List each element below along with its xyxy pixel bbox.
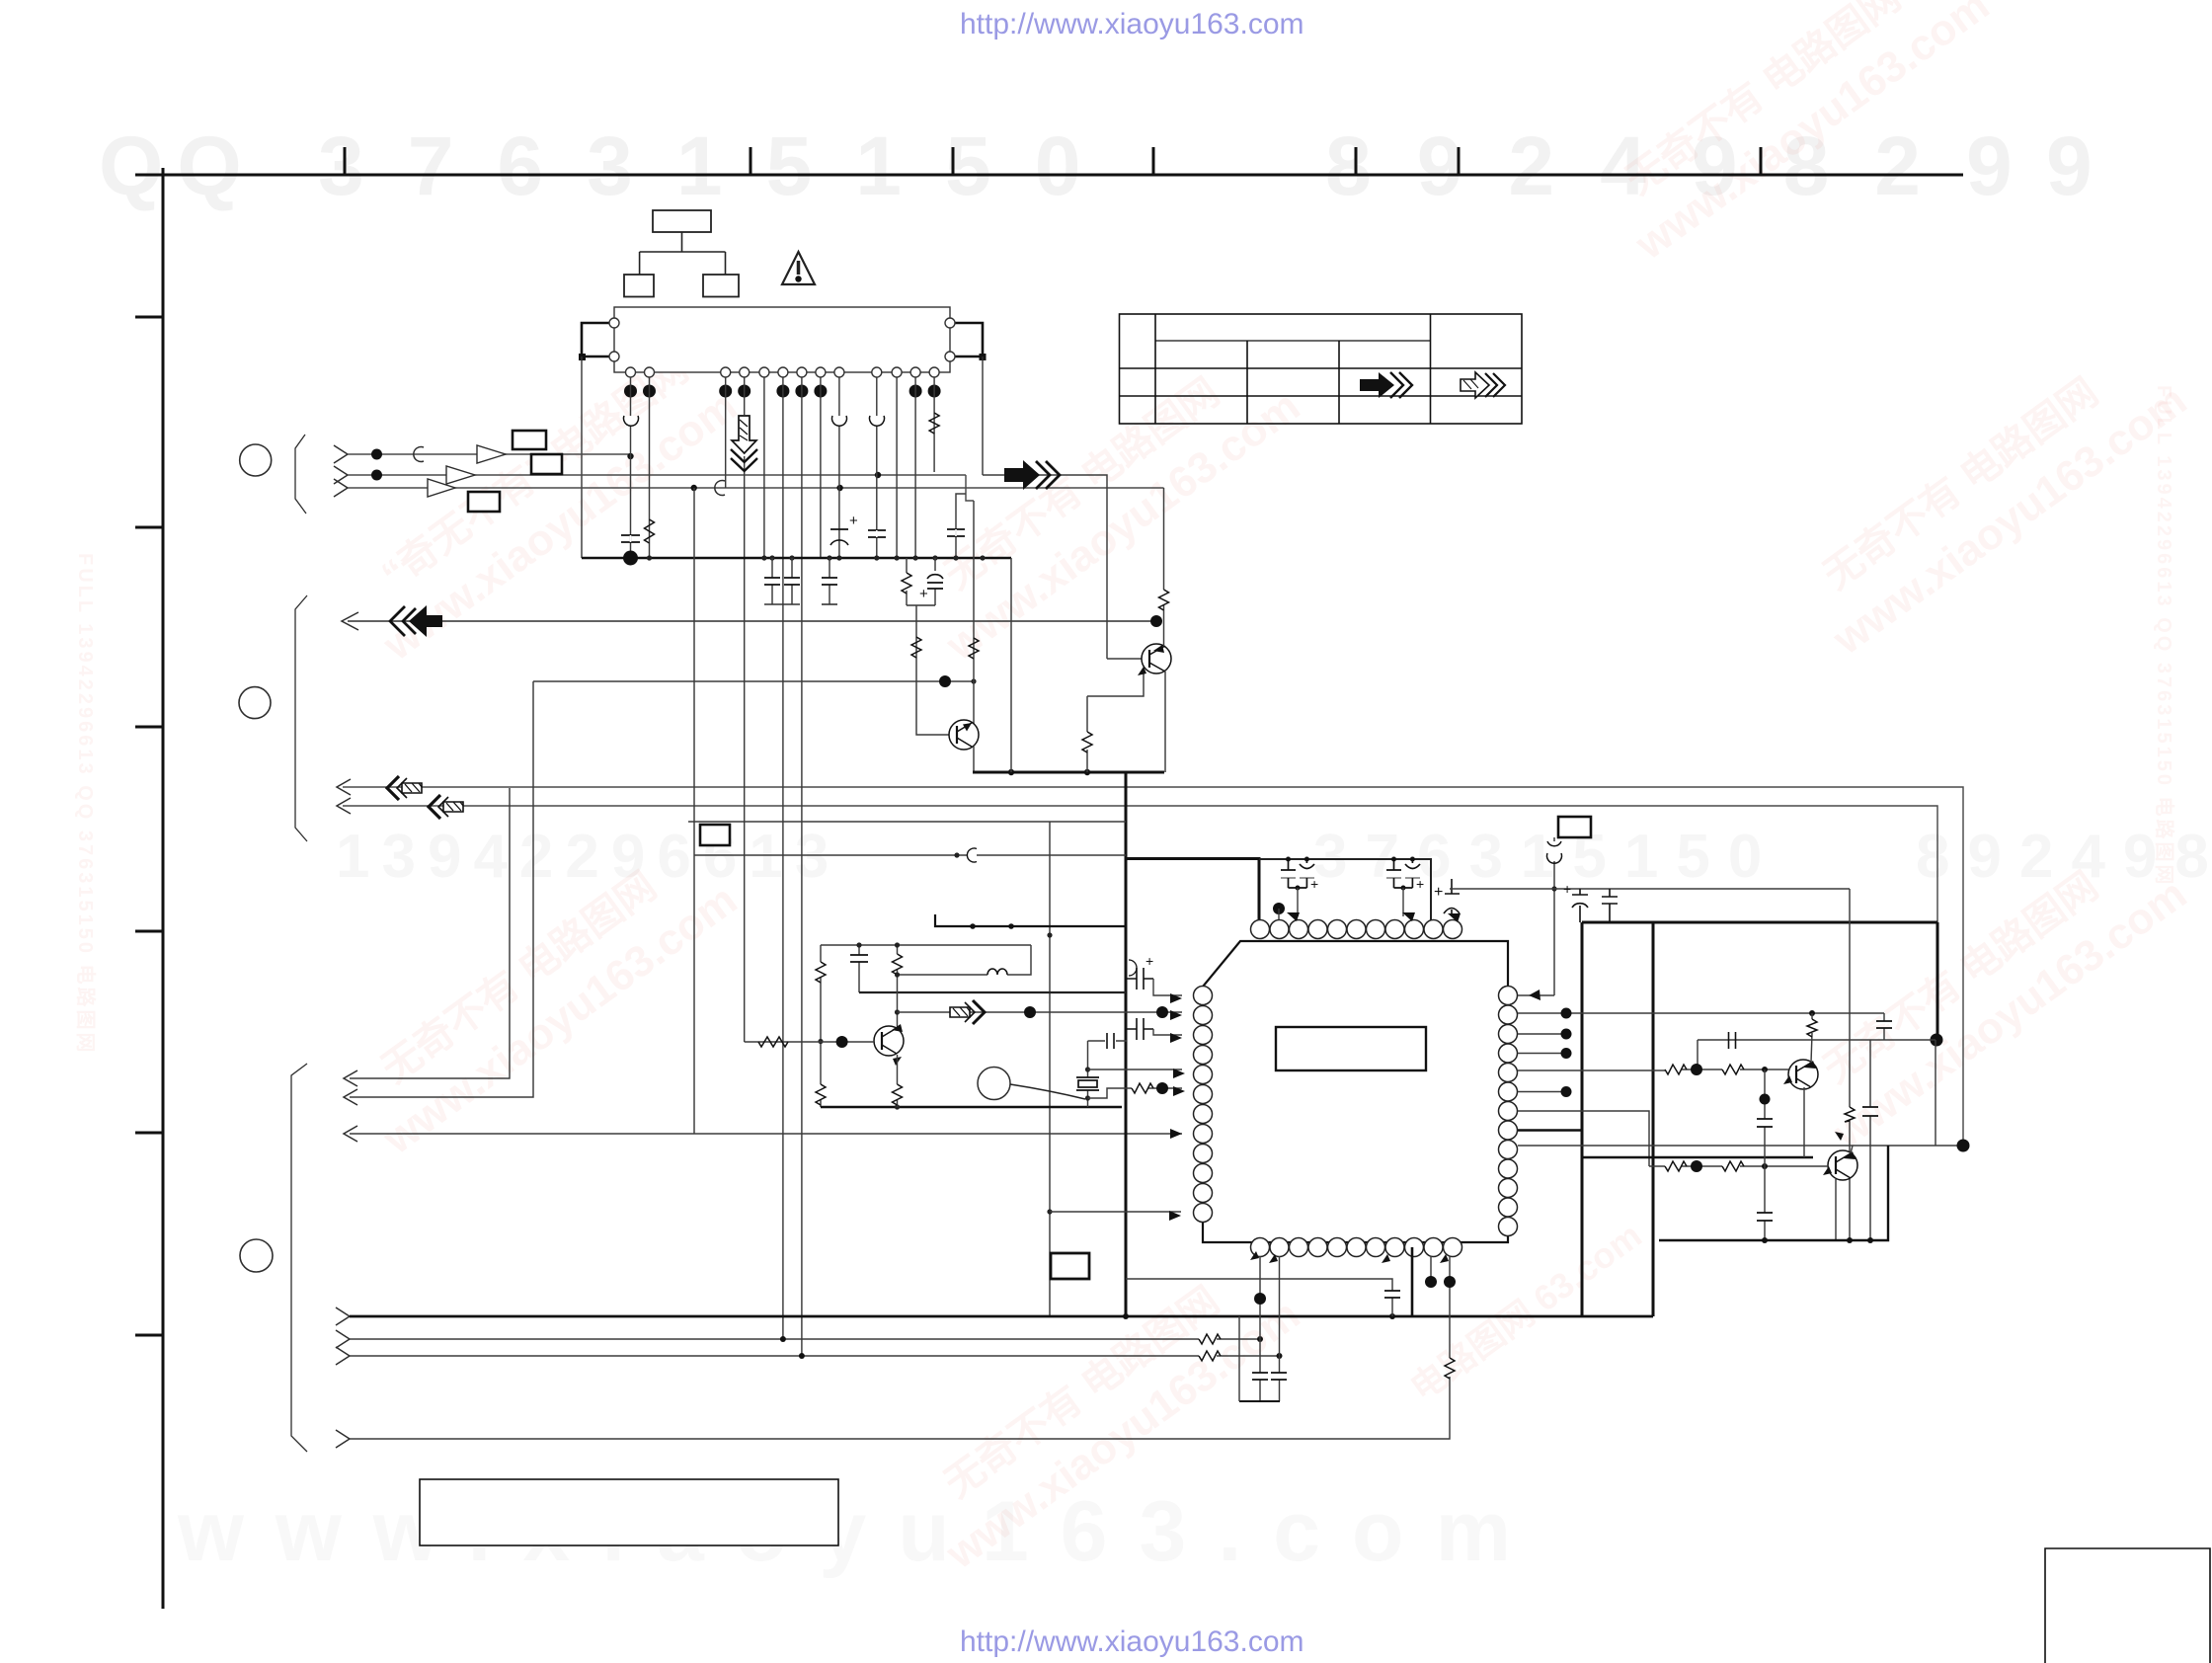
transistor Q4 bbox=[1138, 644, 1171, 675]
top frame line bbox=[135, 174, 1963, 177]
line y1295 bbox=[1126, 1279, 1392, 1316]
svg-text:www.xiaoyu163.com: www.xiaoyu163.com bbox=[177, 1484, 1542, 1579]
thick rail y934 bbox=[1582, 921, 1937, 924]
emitter chain x986 bbox=[973, 501, 975, 724]
tick left 3 bbox=[135, 726, 163, 729]
return arrow y1111 bbox=[344, 1089, 357, 1105]
Q1 base rail y1083 bbox=[1518, 1069, 1788, 1070]
wire line1 bbox=[348, 453, 631, 455]
vertical x1575 bbox=[1553, 837, 1555, 995]
out arrow y1452 bbox=[336, 1430, 350, 1448]
osc circle bbox=[978, 1068, 1010, 1100]
black right arrow symbol bbox=[1004, 460, 1040, 490]
pin wire x908 bbox=[896, 377, 898, 558]
return arrow y1092 bbox=[344, 1070, 357, 1086]
electrolytic cap on x849 bbox=[830, 528, 848, 530]
solid left arrow symbol bbox=[390, 606, 416, 636]
part rect R-C bbox=[468, 492, 500, 512]
circle marker C bbox=[240, 1239, 273, 1272]
vertical x703 bbox=[693, 488, 695, 1134]
dot y866 bbox=[954, 852, 959, 857]
table col line 2 bbox=[1246, 341, 1248, 424]
rail y987 with bead bbox=[898, 945, 1032, 975]
pin arrows below bottom pins bbox=[1250, 1251, 1259, 1260]
wire y1148 to IC pin bbox=[350, 1133, 1182, 1135]
caps chain x1787 bbox=[1764, 1069, 1766, 1240]
table black arrow symbol bbox=[1360, 372, 1394, 398]
part rect top right bbox=[1558, 817, 1591, 837]
svg-text:FULL 13942296613 QQ 376315150: FULL 13942296613 QQ 376315150 电路图网 bbox=[74, 553, 98, 1056]
series cap y1053 bbox=[1729, 1032, 1736, 1049]
base resistor bbox=[758, 1037, 788, 1047]
transistor Q5 bbox=[874, 1024, 904, 1066]
tick top 4 bbox=[1152, 147, 1155, 175]
IC right pins bbox=[1499, 987, 1518, 1236]
resistor on x946 bbox=[929, 413, 939, 434]
table col line 1 bbox=[1154, 314, 1156, 424]
resistor x908 bbox=[897, 945, 899, 1027]
pin3 arrow bbox=[1287, 912, 1300, 921]
Q4 base bbox=[1107, 658, 1142, 660]
hatched right arrow line y1025 bbox=[898, 1011, 1183, 1013]
bracket 3 bbox=[291, 1064, 307, 1452]
tick top 6 bbox=[1458, 147, 1461, 175]
resistor x1468 bbox=[1445, 1358, 1455, 1379]
tick top 3 bbox=[952, 147, 955, 175]
return arrowhead y629 bbox=[342, 612, 358, 630]
big junction dot bus bbox=[623, 551, 638, 566]
line y1452 from IC bbox=[350, 1377, 1450, 1439]
return arrow y1148 bbox=[344, 1126, 357, 1142]
stub pin3 bbox=[1153, 1029, 1182, 1035]
resistor on x657 bbox=[645, 519, 655, 543]
table row line 1 bbox=[1120, 367, 1523, 369]
vertical from dot x1960 bbox=[1935, 1040, 1936, 1146]
inductor arc line3 bbox=[715, 481, 725, 496]
line y1160 bbox=[1518, 1145, 1963, 1147]
end dot line1 bbox=[627, 453, 633, 459]
line y1053 bbox=[1698, 1039, 1935, 1041]
osc top rail bbox=[821, 944, 1031, 946]
osc left leg with resistors bbox=[820, 945, 822, 1107]
resistor x928 bbox=[911, 637, 921, 658]
buffer triangle line1 bbox=[477, 445, 506, 463]
tick left 1 bbox=[135, 316, 163, 319]
pin circle left top bbox=[609, 318, 619, 328]
below-bus cap 3 bbox=[829, 558, 830, 604]
circle marker A bbox=[240, 444, 272, 476]
small cap x1908 bbox=[1883, 1013, 1885, 1040]
svg-text:+: + bbox=[1416, 876, 1424, 892]
resistor b bbox=[1722, 1065, 1744, 1074]
dot x1063 b bbox=[1047, 1209, 1052, 1214]
resistor branch x1101 bbox=[1086, 696, 1088, 772]
bus dots bbox=[1123, 1313, 1129, 1319]
junction dot line2 bbox=[371, 470, 382, 481]
resistor osc left bottom bbox=[816, 1084, 826, 1105]
big dot base a bbox=[1691, 1064, 1702, 1075]
svg-text:13942296613: 13942296613 bbox=[336, 823, 840, 891]
left dashed caps bbox=[1126, 960, 1153, 1040]
svg-text:+: + bbox=[1310, 876, 1318, 892]
pin circle right top bbox=[945, 318, 955, 328]
rail dots bbox=[856, 942, 861, 947]
thick vertical x1602 bbox=[1581, 922, 1584, 1316]
out arrow y1373 bbox=[336, 1347, 350, 1365]
resistor a bbox=[1665, 1065, 1687, 1074]
Q1 emitter down bbox=[1803, 1087, 1805, 1157]
stub R8 thick bbox=[1518, 1129, 1582, 1131]
resistor line to pin6 bbox=[1088, 1088, 1183, 1098]
pin2 junction dot bbox=[1273, 903, 1285, 914]
big dot x1962 bbox=[1931, 1034, 1943, 1047]
thin line y866 bbox=[694, 854, 1126, 856]
wire pin B2 down bbox=[1279, 1256, 1281, 1401]
svg-text:376315150: 376315150 bbox=[318, 119, 1124, 212]
link y705 to Q4 bbox=[1087, 670, 1144, 696]
transistor Q2 bbox=[1823, 1150, 1857, 1180]
warning triangle bbox=[782, 252, 815, 284]
resistor y1373 bbox=[1199, 1351, 1221, 1361]
buffer triangle line2 bbox=[446, 466, 475, 484]
wires B10 B11 bbox=[1431, 1256, 1450, 1358]
stub R6 bbox=[1518, 1091, 1566, 1093]
svg-text:QQ: QQ bbox=[99, 119, 256, 212]
hatched left arrow y816 bbox=[429, 795, 463, 819]
crystal X1 bbox=[1087, 1041, 1089, 1107]
pin wire x657 bbox=[649, 377, 651, 558]
svg-text:+: + bbox=[1434, 884, 1443, 901]
stub R3 bbox=[1518, 1033, 1566, 1035]
top cap cluster 2 bbox=[1386, 859, 1420, 888]
IC body U1 bbox=[1203, 941, 1508, 1242]
dot bus782 b bbox=[1084, 769, 1090, 775]
pin9 arrow bbox=[1402, 912, 1415, 921]
input arrow 2 bbox=[334, 466, 348, 484]
big dot y690 bbox=[939, 675, 951, 687]
line y832 bbox=[688, 821, 1126, 823]
buffer triangle line3 bbox=[428, 479, 455, 497]
thick bus y782 bbox=[973, 771, 1164, 774]
stub R4 bbox=[1518, 1053, 1566, 1055]
pin wire x792 long bbox=[782, 377, 784, 1338]
ferrite bead bbox=[987, 969, 1007, 975]
pin wire x849 bbox=[838, 377, 840, 558]
bottom pin row circles bbox=[626, 367, 940, 377]
tick top 1 bbox=[344, 147, 347, 175]
hatched right arrow symbol bbox=[950, 1000, 985, 1024]
IC top pins bbox=[1251, 920, 1462, 939]
black right arrow line bbox=[983, 475, 1107, 659]
bus small dots bbox=[647, 555, 986, 560]
top cap cluster 1 bbox=[1281, 859, 1314, 888]
svg-text:FULL 13942296613 QQ 376315150: FULL 13942296613 QQ 376315150 电路图网 bbox=[2153, 385, 2176, 888]
pin wire x734 bbox=[725, 377, 727, 488]
input arrow 3 bbox=[334, 479, 348, 497]
Q5 emitter down bbox=[897, 1055, 899, 1107]
junction dot line3b bbox=[836, 485, 842, 491]
below-bus cap 2 bbox=[791, 558, 793, 604]
pin junction dots below connector bbox=[624, 385, 941, 398]
inner box right edge thick bbox=[1936, 922, 1939, 1040]
pin wire x946 bbox=[933, 377, 935, 472]
junction dot line3a bbox=[691, 485, 697, 491]
right tab junction bbox=[980, 354, 987, 360]
below-bus cap bracket a bbox=[764, 603, 800, 605]
svg-text:http://www.xiaoyu163.com: http://www.xiaoyu163.com bbox=[960, 8, 1304, 40]
below-bus cap 1 bbox=[771, 558, 773, 604]
svg-text:+: + bbox=[849, 513, 858, 529]
thick stub x1430 bbox=[1411, 1247, 1414, 1316]
IC bottom pins bbox=[1251, 1238, 1462, 1257]
table col line 3 bbox=[1338, 341, 1340, 424]
inductor arc line1 bbox=[414, 447, 424, 462]
capacitor C on x638 bbox=[621, 535, 640, 542]
hierarchy child box left bbox=[624, 275, 654, 297]
line y900 bbox=[1450, 888, 1850, 890]
part rect R-B bbox=[531, 454, 562, 474]
wire pin B1 down bbox=[1259, 1256, 1261, 1401]
resistor x986 bbox=[969, 638, 979, 659]
tick top 7 bbox=[1760, 147, 1763, 175]
line to pin12 bbox=[1050, 1211, 1181, 1213]
electrolytic below bus x947 bbox=[934, 558, 936, 605]
tick top 5 bbox=[1355, 147, 1358, 175]
left tab junction bbox=[579, 354, 586, 360]
tick top 2 bbox=[750, 147, 752, 175]
part rect mid bbox=[700, 825, 730, 845]
svg-text:+: + bbox=[919, 586, 928, 602]
table row line 2 bbox=[1120, 395, 1523, 397]
tick left 5 bbox=[135, 1132, 163, 1135]
junction dot y629 bbox=[1150, 615, 1162, 627]
part rect bottom bbox=[1051, 1253, 1089, 1279]
main bottom bus y1333 bbox=[350, 1315, 1653, 1318]
resistor y1356 bbox=[1199, 1334, 1221, 1344]
pin wire x753 bbox=[744, 377, 746, 1042]
return arrowhead y797 bbox=[337, 779, 351, 795]
cap x870 bbox=[858, 945, 860, 992]
hatched down arrow bbox=[731, 416, 757, 471]
mid rail y1005 bbox=[859, 991, 1126, 993]
wire y1092 bbox=[350, 788, 510, 1078]
circle marker B bbox=[239, 687, 271, 719]
Q3 collector down bbox=[973, 747, 975, 772]
arc on y866 bbox=[967, 848, 977, 862]
svg-text:+: + bbox=[1145, 953, 1153, 969]
junction dot line2 right bbox=[875, 472, 881, 478]
line y690 bbox=[533, 680, 974, 682]
resistor below bus x918 bbox=[906, 558, 908, 605]
table outer bbox=[1120, 314, 1523, 424]
wire tab down to bus bbox=[581, 356, 583, 558]
thick rail y1172 bbox=[1582, 1156, 1813, 1158]
vertical x1024 bus565-bus782 bbox=[1010, 558, 1012, 772]
svg-text:9: 9 bbox=[2046, 119, 2093, 212]
big dot y1025 bbox=[1024, 1006, 1036, 1018]
inductor arcs x1575 bbox=[1547, 841, 1562, 863]
table col line 4 bbox=[1430, 314, 1432, 424]
small dot base b bbox=[1762, 1067, 1768, 1072]
main bus y565 bbox=[582, 557, 1011, 560]
IC left pins bbox=[1194, 987, 1213, 1223]
Q5 base line bbox=[745, 1041, 874, 1043]
cap on y1054 link bbox=[1088, 1040, 1128, 1042]
hierarchy child box right bbox=[703, 275, 739, 297]
dot bus782 a bbox=[1008, 769, 1014, 775]
part rect R-A bbox=[513, 431, 546, 449]
electrolytic to pin11 bbox=[1444, 879, 1460, 916]
inductor arc on x849 bbox=[832, 416, 847, 426]
bottom rail y1256 bbox=[1659, 1146, 1888, 1240]
resistor chain x1178 bbox=[1163, 488, 1165, 645]
line to pin4 bbox=[1088, 1069, 1183, 1070]
wire line2 bbox=[348, 474, 966, 476]
left tab bracket bbox=[582, 323, 609, 356]
cap branch x968 bbox=[956, 494, 966, 558]
hierarchy parent box bbox=[653, 210, 711, 232]
svg-text:http://www.xiaoyu163.com: http://www.xiaoyu163.com bbox=[960, 1625, 1304, 1658]
cap x1894 bbox=[1869, 1040, 1871, 1240]
bracket 1 bbox=[295, 435, 306, 514]
line y1356 bbox=[350, 1338, 1260, 1340]
pink rotated watermarks bbox=[342, 0, 2195, 1579]
Q2 base rail y1181 bbox=[1649, 1165, 1828, 1167]
line2 corner jog bbox=[966, 475, 974, 501]
resistor x1873 bbox=[1845, 1107, 1855, 1122]
pin R7 line to Q2 base bbox=[1518, 1111, 1649, 1166]
tick left 4 bbox=[135, 930, 163, 933]
tick left 6 bbox=[135, 1334, 163, 1337]
right tab bracket bbox=[955, 323, 983, 356]
hierarchy connectors bbox=[640, 232, 726, 275]
Q1 collector up bbox=[1811, 1033, 1812, 1063]
hatched left arrow y797 bbox=[387, 776, 422, 800]
line y1373 bbox=[350, 1355, 1280, 1357]
inductor arc on x887 bbox=[870, 416, 885, 426]
thick feed y870 bbox=[1126, 859, 1259, 920]
Q2 emitter down bbox=[1835, 1179, 1837, 1240]
wire down to Q3 base bbox=[916, 605, 949, 735]
return wire y816 (inner box top) bbox=[343, 806, 1937, 922]
line y1026 pin R2 bbox=[1518, 1012, 1884, 1014]
bracket rc bbox=[907, 604, 935, 606]
pin wire x773 bbox=[763, 377, 765, 558]
transistor Q3 bbox=[949, 720, 979, 750]
pin wire x830 bbox=[820, 377, 822, 558]
top loop rail bbox=[1259, 859, 1431, 920]
vertical x1873 bbox=[1849, 889, 1851, 1240]
left frame line bbox=[162, 168, 165, 1609]
out arrow y1356 bbox=[336, 1330, 350, 1348]
tick left 2 bbox=[135, 526, 163, 529]
table hatched arrow symbol bbox=[1461, 372, 1505, 398]
resistor x1835 bbox=[1811, 1013, 1813, 1019]
stub pin1 bbox=[1153, 979, 1182, 995]
inductor arc on x638 bbox=[624, 416, 639, 426]
pin circle right bottom bbox=[945, 352, 955, 361]
pin wire x887 bbox=[876, 377, 878, 558]
pin circle left bottom bbox=[609, 352, 619, 361]
out arrow y1333 bbox=[336, 1307, 350, 1325]
big dot y1025 b bbox=[1156, 1006, 1168, 1018]
Q2 collector up to y1160 bbox=[1851, 1146, 1853, 1153]
wire right tab down bbox=[982, 356, 984, 475]
junction dot line1 bbox=[371, 449, 382, 460]
svg-text:+: + bbox=[1563, 881, 1571, 897]
thick vertical x1140 bbox=[1125, 772, 1128, 1316]
capacitor on x887 bbox=[868, 530, 886, 537]
pin wire x811 long bbox=[801, 377, 803, 1356]
small dot y690 bbox=[971, 678, 976, 683]
return arrowhead y816 bbox=[337, 798, 351, 814]
corner to Q1 base rail bbox=[1697, 1040, 1698, 1069]
Q4 collector down to thick bus bbox=[1164, 672, 1166, 772]
wire line3 bbox=[348, 487, 1164, 489]
return wire y629 bbox=[348, 620, 1151, 622]
title box bbox=[420, 1479, 838, 1545]
dot x1063 a bbox=[1047, 932, 1052, 937]
pin R1 wire bbox=[1518, 994, 1554, 996]
below-bus cap bracket b bbox=[822, 603, 837, 605]
return wire y797 (outer box top) bbox=[343, 787, 1963, 1146]
vertical x1063 bbox=[1049, 822, 1051, 1316]
resistor osc left top bbox=[816, 962, 826, 983]
table header sub line bbox=[1155, 340, 1431, 342]
pin wire x927 bbox=[914, 377, 916, 558]
thick rail y938 bbox=[935, 914, 1126, 926]
cap cluster on y900 bbox=[1572, 889, 1618, 922]
wire y1111 bbox=[350, 681, 533, 1097]
IC label box bbox=[1276, 1027, 1426, 1070]
pin wire x638 bbox=[630, 377, 632, 558]
thick vertical x1674 bbox=[1652, 922, 1655, 1316]
connector block CN bbox=[614, 307, 950, 372]
base dot bbox=[836, 1036, 848, 1048]
transistor Q1 bbox=[1783, 1060, 1818, 1089]
bracket 2 bbox=[295, 595, 307, 841]
capacitor on x968 bbox=[947, 529, 965, 536]
input arrow 1 bbox=[334, 445, 348, 463]
osc bottom rail thick bbox=[821, 1106, 1122, 1108]
corner box bottom right bbox=[2045, 1548, 2210, 1663]
cap bottom bracket bbox=[1239, 1400, 1280, 1402]
